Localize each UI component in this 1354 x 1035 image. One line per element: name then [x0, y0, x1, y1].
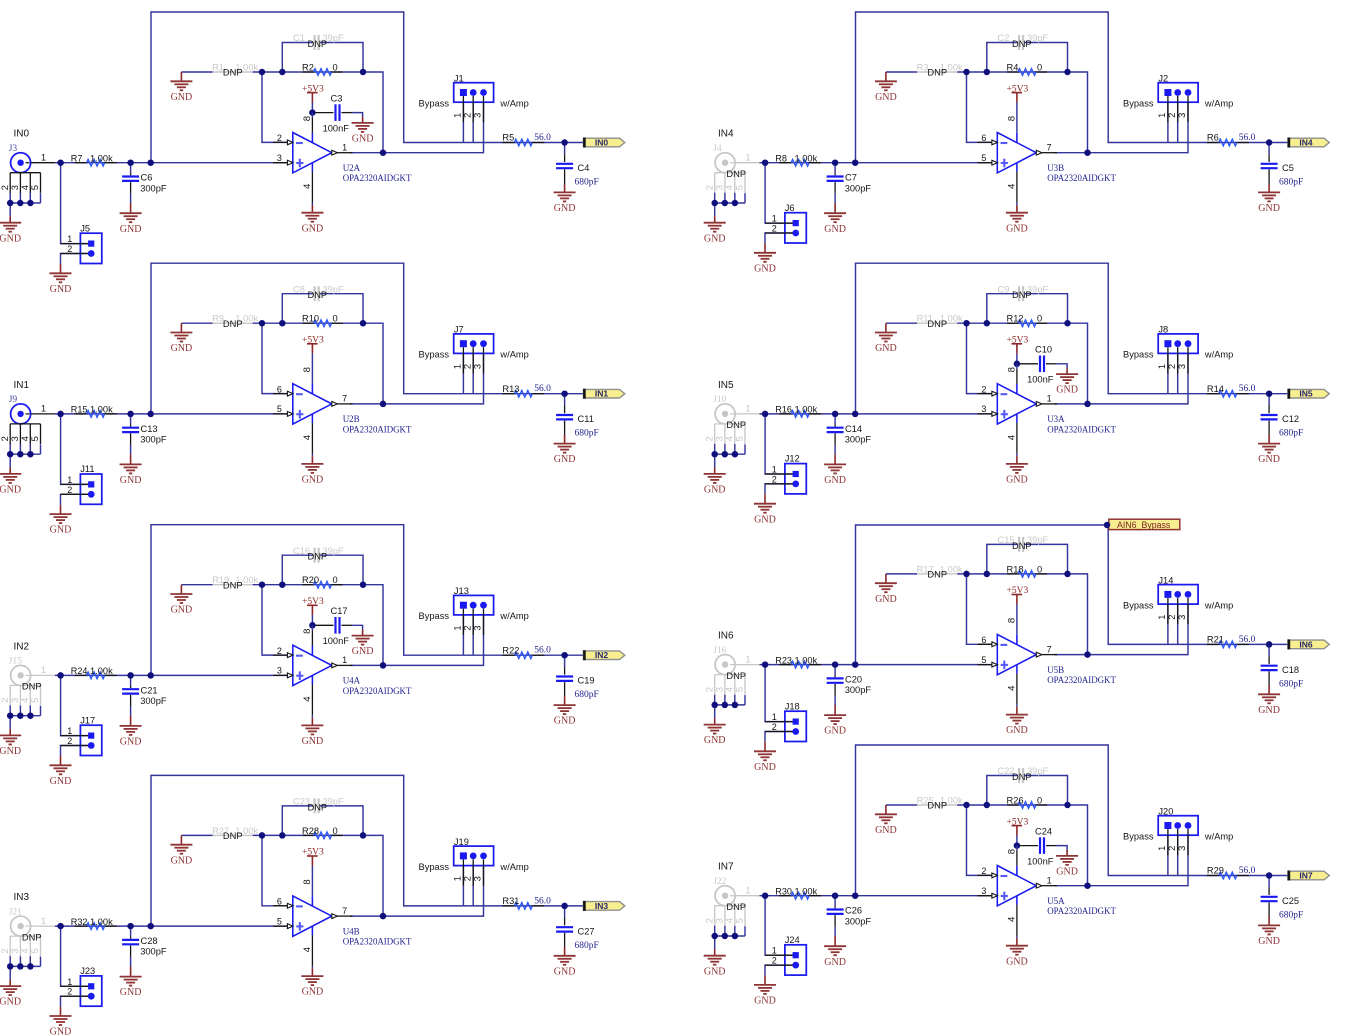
- svg-text:GND: GND: [1258, 203, 1280, 214]
- svg-text:Bypass: Bypass: [1123, 831, 1154, 841]
- wire C13 to ground: [130, 445, 132, 454]
- svg-text:2: 2: [1167, 846, 1177, 851]
- svg-text:4: 4: [1006, 434, 1017, 440]
- connector J3 BNC IN0: [0, 144, 55, 193]
- wire op-amp output: [350, 664, 383, 666]
- junction output filter node: [1266, 872, 1273, 879]
- wire pin 4 to ground: [1016, 936, 1018, 939]
- svg-text:7: 7: [1047, 142, 1052, 152]
- svg-text:DNP: DNP: [726, 420, 746, 430]
- svg-text:8: 8: [302, 629, 313, 634]
- svg-text:R15: R15: [71, 405, 88, 415]
- svg-text:GND: GND: [704, 233, 726, 244]
- op-amp U5A OPA2320AIDGKT: [978, 849, 1117, 936]
- wire C25 tap: [1268, 876, 1270, 888]
- svg-text:R4: R4: [1007, 62, 1019, 72]
- svg-text:IN5: IN5: [1299, 389, 1313, 399]
- wire pin 8: [1016, 846, 1018, 851]
- svg-text:R28: R28: [302, 826, 319, 836]
- svg-text:J9: J9: [9, 395, 18, 405]
- resistor R5 56.0: [502, 133, 551, 146]
- svg-text:2: 2: [67, 736, 72, 746]
- capacitor C23 DNP 39pF: [293, 797, 344, 814]
- svg-text:1: 1: [67, 726, 72, 736]
- svg-text:56.0: 56.0: [534, 896, 551, 906]
- resistor R16 1.00k: [775, 405, 821, 418]
- svg-text:56.0: 56.0: [534, 133, 551, 143]
- svg-text:U2A: U2A: [343, 163, 361, 173]
- svg-text:1.00k: 1.00k: [795, 655, 818, 665]
- wire input row net IN5: [760, 413, 998, 415]
- wire pin 4 to ground: [1016, 203, 1018, 206]
- jumper J13 bypass select: [453, 586, 494, 635]
- svg-text:1.00k: 1.00k: [795, 405, 818, 415]
- svg-text:IN6: IN6: [718, 631, 734, 642]
- svg-text:1: 1: [746, 654, 751, 664]
- svg-text:1: 1: [1157, 364, 1167, 369]
- wire C28 to ground: [130, 957, 132, 966]
- capacitor C11 680pF: [556, 405, 599, 438]
- wire J12 pin1 stub: [765, 414, 792, 474]
- svg-text:R7: R7: [71, 154, 83, 164]
- svg-text:GND: GND: [171, 343, 193, 354]
- svg-text:R16: R16: [775, 405, 792, 415]
- svg-text:R13: R13: [502, 384, 519, 394]
- svg-text:U5B: U5B: [1047, 665, 1064, 675]
- wire +5V3 to pin 8: [1016, 836, 1018, 846]
- junction feedback node C: [1064, 320, 1071, 327]
- svg-text:OPA2320AIDGKT: OPA2320AIDGKT: [1047, 173, 1116, 183]
- svg-text:1: 1: [746, 886, 751, 896]
- resistor R29 56.0: [1207, 866, 1256, 879]
- svg-text:GND: GND: [754, 263, 776, 274]
- svg-text:C18: C18: [1282, 665, 1299, 675]
- junction loop tap: [147, 411, 154, 418]
- capacitor C26 300pF: [827, 906, 872, 927]
- svg-text:GND: GND: [875, 594, 897, 605]
- resistor R4 0: [1007, 62, 1048, 75]
- resistor R11 DNP 1.00k: [917, 314, 963, 329]
- wire feedback row: [886, 71, 917, 73]
- resistor R25 DNP 1.00k: [917, 795, 963, 810]
- svg-text:IN4: IN4: [718, 129, 734, 140]
- wire C27 tap: [564, 906, 566, 918]
- svg-text:680pF: 680pF: [575, 178, 599, 188]
- svg-text:8: 8: [302, 116, 313, 121]
- svg-text:2: 2: [462, 364, 472, 369]
- junction C14 tap: [832, 411, 839, 418]
- svg-text:100nF: 100nF: [323, 636, 350, 646]
- wire input row net IN7: [760, 895, 998, 897]
- svg-text:GND: GND: [1258, 454, 1280, 465]
- resistor R3 DNP 1.00k: [917, 62, 963, 77]
- capacitor C28 300pF: [122, 936, 167, 957]
- svg-text:GND: GND: [1006, 956, 1028, 967]
- capacitor C13 300pF: [122, 424, 167, 445]
- wire BNC shield bus: [10, 715, 40, 717]
- wire output node to J13 pin3: [383, 615, 484, 666]
- svg-text:R6: R6: [1207, 133, 1219, 143]
- ground U2A pin 4: [311, 205, 313, 213]
- junction feedback node B: [279, 69, 286, 76]
- svg-text:GND: GND: [352, 646, 374, 657]
- junction feedback node A: [963, 571, 970, 578]
- svg-text:R30: R30: [775, 887, 792, 897]
- svg-text:GND: GND: [824, 957, 846, 968]
- svg-text:4: 4: [1006, 183, 1017, 189]
- wire C26 tap: [834, 896, 836, 907]
- svg-text:1: 1: [41, 665, 46, 675]
- svg-text:0: 0: [333, 314, 338, 324]
- ground C27: [564, 947, 566, 956]
- ground U4B pin 4: [311, 968, 313, 976]
- junction AIN6_Bypass: [1104, 522, 1111, 529]
- svg-text:GND: GND: [754, 762, 776, 773]
- wire feedback row: [181, 584, 212, 586]
- svg-text:680pF: 680pF: [1279, 679, 1303, 689]
- svg-text:0: 0: [1037, 795, 1042, 805]
- wire C5 tap: [1268, 143, 1270, 155]
- svg-text:R14: R14: [1207, 384, 1224, 394]
- ground feedback network: [180, 835, 182, 844]
- wire J8 pin2 to output filter: [1177, 353, 1179, 393]
- svg-text:C2: C2: [998, 33, 1010, 43]
- wire input row net IN4: [760, 162, 998, 164]
- wire J14 pin1 drop: [1167, 604, 1169, 644]
- junction input node: [762, 159, 769, 166]
- wire feedback loop top rail net IN1: [151, 263, 463, 414]
- svg-text:1: 1: [772, 946, 777, 956]
- svg-text:680pF: 680pF: [575, 429, 599, 439]
- svg-text:1: 1: [453, 364, 463, 369]
- svg-text:8: 8: [302, 367, 313, 372]
- op-amp U2A OPA2320AIDGKT: [273, 116, 412, 203]
- svg-text:R20: R20: [302, 575, 319, 585]
- wire C13 tap: [130, 414, 132, 425]
- junction pin 8 node: [1014, 361, 1021, 368]
- svg-text:R8: R8: [775, 154, 787, 164]
- wire inverting input from feedback node: [262, 585, 293, 655]
- capacitor C4 680pF: [556, 154, 599, 187]
- junction feedback node C: [360, 69, 367, 76]
- power +5V3: [1007, 817, 1029, 835]
- port IN3 output: [583, 901, 624, 911]
- svg-text:680pF: 680pF: [1279, 911, 1303, 921]
- svg-text:0: 0: [333, 62, 338, 72]
- svg-text:DNP: DNP: [1012, 39, 1032, 49]
- svg-text:GND: GND: [554, 454, 576, 465]
- svg-text:C7: C7: [845, 173, 857, 183]
- svg-text:J17: J17: [80, 715, 95, 725]
- svg-text:OPA2320AIDGKT: OPA2320AIDGKT: [1047, 424, 1116, 434]
- svg-text:J12: J12: [785, 454, 800, 464]
- wire inverting input from feedback node: [967, 574, 998, 644]
- svg-text:U4A: U4A: [343, 676, 361, 686]
- op-amp U3B OPA2320AIDGKT: [978, 116, 1117, 203]
- svg-text:0: 0: [1037, 564, 1042, 574]
- port IN6 output: [1288, 639, 1329, 649]
- capacitor C18 680pF: [1261, 656, 1304, 689]
- junction feedback node C: [360, 320, 367, 327]
- svg-text:1: 1: [1157, 615, 1167, 620]
- svg-text:0: 0: [1037, 62, 1042, 72]
- svg-text:w/Amp: w/Amp: [499, 350, 528, 360]
- svg-text:4: 4: [1006, 916, 1017, 922]
- svg-text:DNP: DNP: [223, 580, 243, 590]
- svg-text:R29: R29: [1207, 866, 1224, 876]
- capacitor C17 100nF: [315, 606, 352, 646]
- svg-text:1: 1: [1157, 846, 1167, 851]
- junction feedback node A: [259, 832, 266, 839]
- junction C6 tap: [127, 159, 134, 166]
- svg-text:2: 2: [981, 384, 986, 394]
- junction feedback node A: [963, 320, 970, 327]
- svg-text:OPA2320AIDGKT: OPA2320AIDGKT: [343, 424, 412, 434]
- junction loop tap: [147, 672, 154, 679]
- wire feedback loop top rail net IN0: [151, 12, 463, 163]
- svg-text:300pF: 300pF: [845, 685, 872, 695]
- resistor R31 56.0: [502, 896, 551, 909]
- svg-text:DNP: DNP: [22, 682, 42, 692]
- junction feedback node B: [984, 69, 991, 76]
- wire feedback loop top rail net IN2: [151, 525, 463, 676]
- jumper J17 input short: [61, 715, 102, 755]
- junction output filter node: [561, 139, 568, 146]
- svg-text:GND: GND: [875, 825, 897, 836]
- resistor R20 0: [302, 575, 343, 588]
- svg-text:6: 6: [981, 635, 986, 645]
- svg-text:DNP: DNP: [308, 802, 328, 812]
- resistor R13 56.0: [502, 384, 551, 397]
- svg-text:8: 8: [1007, 116, 1018, 121]
- svg-text:DNP: DNP: [308, 290, 328, 300]
- svg-text:DNP: DNP: [223, 831, 243, 841]
- wire BNC shield bus: [715, 453, 745, 455]
- junction BNC shield: [711, 702, 718, 709]
- svg-text:w/Amp: w/Amp: [1204, 350, 1233, 360]
- svg-text:3: 3: [473, 625, 483, 630]
- svg-text:3: 3: [277, 153, 282, 163]
- junction pin 8 node: [309, 622, 316, 629]
- wire BNC shield bus: [715, 935, 745, 937]
- ground C20: [834, 705, 836, 715]
- svg-text:3: 3: [473, 876, 483, 881]
- ground BNC shield: [714, 467, 716, 474]
- svg-text:1.00k: 1.00k: [90, 666, 113, 676]
- svg-text:2: 2: [277, 646, 282, 656]
- wire feedback row: [181, 834, 212, 836]
- svg-text:GND: GND: [120, 987, 142, 998]
- junction feedback node B: [984, 320, 991, 327]
- svg-text:U3B: U3B: [1047, 163, 1064, 173]
- svg-text:GND: GND: [50, 284, 72, 295]
- svg-text:DNP: DNP: [927, 801, 947, 811]
- svg-text:3: 3: [981, 886, 986, 896]
- svg-text:5: 5: [29, 698, 40, 703]
- wire C4 tap: [564, 143, 566, 155]
- svg-text:IN3: IN3: [14, 892, 30, 903]
- jumper J20 bypass select: [1157, 807, 1198, 856]
- ground U4A pin 4: [311, 718, 313, 726]
- svg-text:3: 3: [473, 113, 483, 118]
- svg-text:3: 3: [1177, 846, 1187, 851]
- resistor R24 1.00k: [71, 666, 117, 679]
- wire feedback loop top rail net IN5: [856, 263, 1168, 414]
- svg-text:GND: GND: [302, 987, 324, 998]
- resistor R15 1.00k: [71, 405, 117, 418]
- ground C24: [1066, 850, 1068, 856]
- svg-text:DNP: DNP: [927, 68, 947, 78]
- capacitor C12 680pF: [1261, 405, 1304, 438]
- ground C10: [1066, 368, 1068, 374]
- resistor R12 0: [1007, 314, 1048, 327]
- svg-text:GND: GND: [171, 92, 193, 103]
- wire +5V3 to pin 8: [311, 103, 313, 113]
- jumper J7 bypass select: [453, 325, 494, 374]
- svg-text:GND: GND: [120, 475, 142, 486]
- svg-text:2: 2: [772, 474, 777, 484]
- resistor R32 1.00k: [71, 917, 117, 929]
- ground C5: [1268, 184, 1270, 193]
- ground feedback network: [885, 805, 887, 814]
- svg-text:Bypass: Bypass: [1123, 350, 1154, 360]
- junction output filter node: [561, 390, 568, 397]
- wire op-amp output: [350, 403, 383, 405]
- wire C16 loop: [282, 555, 313, 585]
- svg-text:GND: GND: [875, 343, 897, 354]
- capacitor C3 100nF: [315, 93, 352, 133]
- capacitor C5 680pF: [1261, 154, 1304, 187]
- svg-text:C17: C17: [331, 606, 348, 616]
- ground U3A pin 4: [1016, 456, 1018, 464]
- junction BNC shield: [7, 200, 14, 207]
- svg-text:C20: C20: [845, 675, 862, 685]
- wire C9 loop: [987, 294, 1018, 324]
- svg-text:56.0: 56.0: [1239, 635, 1256, 645]
- svg-text:C9: C9: [998, 284, 1010, 294]
- capacitor C9 DNP 39pF: [998, 284, 1049, 301]
- wire feedback to output node: [1068, 805, 1088, 886]
- svg-text:1: 1: [1047, 394, 1052, 404]
- svg-text:R23: R23: [775, 655, 792, 665]
- ground BNC shield: [9, 216, 11, 223]
- svg-text:IN4: IN4: [1299, 138, 1313, 148]
- svg-text:C12: C12: [1282, 414, 1299, 424]
- wire output node to J7 pin3: [383, 353, 484, 404]
- svg-text:680pF: 680pF: [575, 690, 599, 700]
- junction C7 tap: [832, 159, 839, 166]
- wire J20 pin2 to output filter: [1177, 835, 1179, 875]
- wire feedback to output node: [363, 835, 383, 916]
- svg-text:IN2: IN2: [595, 650, 609, 660]
- svg-text:3: 3: [1177, 364, 1187, 369]
- junction input node: [57, 672, 64, 679]
- wire pin 4 to ground: [311, 454, 313, 457]
- wire C8 loop: [282, 294, 313, 324]
- svg-text:1.00k: 1.00k: [90, 405, 113, 415]
- junction output filter node: [561, 903, 568, 910]
- jumper J8 bypass select: [1157, 325, 1198, 374]
- ground C6: [130, 203, 132, 213]
- svg-text:GND: GND: [754, 514, 776, 525]
- wire J14 pin2 to output filter: [1177, 604, 1179, 644]
- svg-text:DNP: DNP: [1012, 541, 1032, 551]
- op-amp U4A OPA2320AIDGKT: [273, 629, 412, 716]
- svg-text:1: 1: [746, 153, 751, 163]
- wire J12 pin2 to ground: [765, 484, 793, 494]
- junction pin 8 node: [309, 109, 316, 116]
- wire inverting input from feedback node: [262, 323, 293, 393]
- wire C12 tap: [1268, 394, 1270, 406]
- svg-text:300pF: 300pF: [845, 916, 872, 926]
- wire J20 pin1 drop: [1167, 835, 1169, 875]
- junction feedback node A: [259, 69, 266, 76]
- svg-text:w/Amp: w/Amp: [1204, 600, 1233, 610]
- power +5V3: [1007, 336, 1029, 354]
- port IN5 output: [1288, 389, 1329, 399]
- svg-text:Bypass: Bypass: [1123, 98, 1154, 108]
- svg-text:J5: J5: [80, 223, 90, 233]
- svg-text:1: 1: [67, 977, 72, 987]
- svg-text:AIN6_Bypass: AIN6_Bypass: [1117, 520, 1171, 530]
- svg-text:C21: C21: [141, 685, 158, 695]
- svg-text:100nF: 100nF: [1027, 856, 1054, 866]
- svg-text:R10: R10: [302, 314, 319, 324]
- svg-text:1: 1: [41, 153, 46, 163]
- junction output filter node: [561, 652, 568, 659]
- ground BNC shield: [714, 216, 716, 223]
- svg-text:GND: GND: [50, 776, 72, 787]
- capacitor C15 DNP 39pF: [998, 535, 1049, 552]
- svg-text:Bypass: Bypass: [419, 862, 450, 872]
- resistor R21 56.0: [1207, 635, 1256, 648]
- wire J18 pin1 stub: [765, 665, 792, 722]
- junction pin 8 node: [1014, 842, 1021, 849]
- svg-text:C6: C6: [141, 173, 153, 183]
- resistor R6 56.0: [1207, 133, 1256, 146]
- svg-text:GND: GND: [1258, 936, 1280, 947]
- svg-text:w/Amp: w/Amp: [1204, 98, 1233, 108]
- svg-text:GND: GND: [1056, 867, 1078, 878]
- jumper J23 input short: [61, 966, 102, 1006]
- junction input node: [762, 661, 769, 668]
- svg-text:U2B: U2B: [343, 414, 360, 424]
- svg-text:DNP: DNP: [22, 932, 42, 942]
- ground C21: [130, 716, 132, 726]
- power +5V3: [1007, 84, 1029, 102]
- junction output node: [1084, 651, 1091, 658]
- wire C15 loop: [987, 544, 1018, 574]
- wire C26 to ground: [834, 927, 836, 936]
- svg-text:OPA2320AIDGKT: OPA2320AIDGKT: [343, 686, 412, 696]
- wire J5 pin1 stub: [61, 163, 88, 244]
- wire pin 4 to ground: [311, 966, 313, 969]
- svg-text:GND: GND: [554, 966, 576, 977]
- capacitor C10 100nF: [1020, 345, 1057, 385]
- svg-text:5: 5: [277, 916, 282, 926]
- wire inverting input from feedback node: [262, 72, 293, 142]
- capacitor C21 300pF: [122, 685, 167, 706]
- wire pin 8: [311, 625, 313, 630]
- svg-text:3: 3: [473, 364, 483, 369]
- ground C14: [834, 454, 836, 464]
- svg-text:C8: C8: [293, 284, 305, 294]
- svg-text:DNP: DNP: [223, 319, 243, 329]
- svg-text:IN3: IN3: [595, 901, 609, 911]
- svg-text:2: 2: [67, 987, 72, 997]
- svg-text:GND: GND: [171, 855, 193, 866]
- wire feedback to output node: [363, 585, 383, 666]
